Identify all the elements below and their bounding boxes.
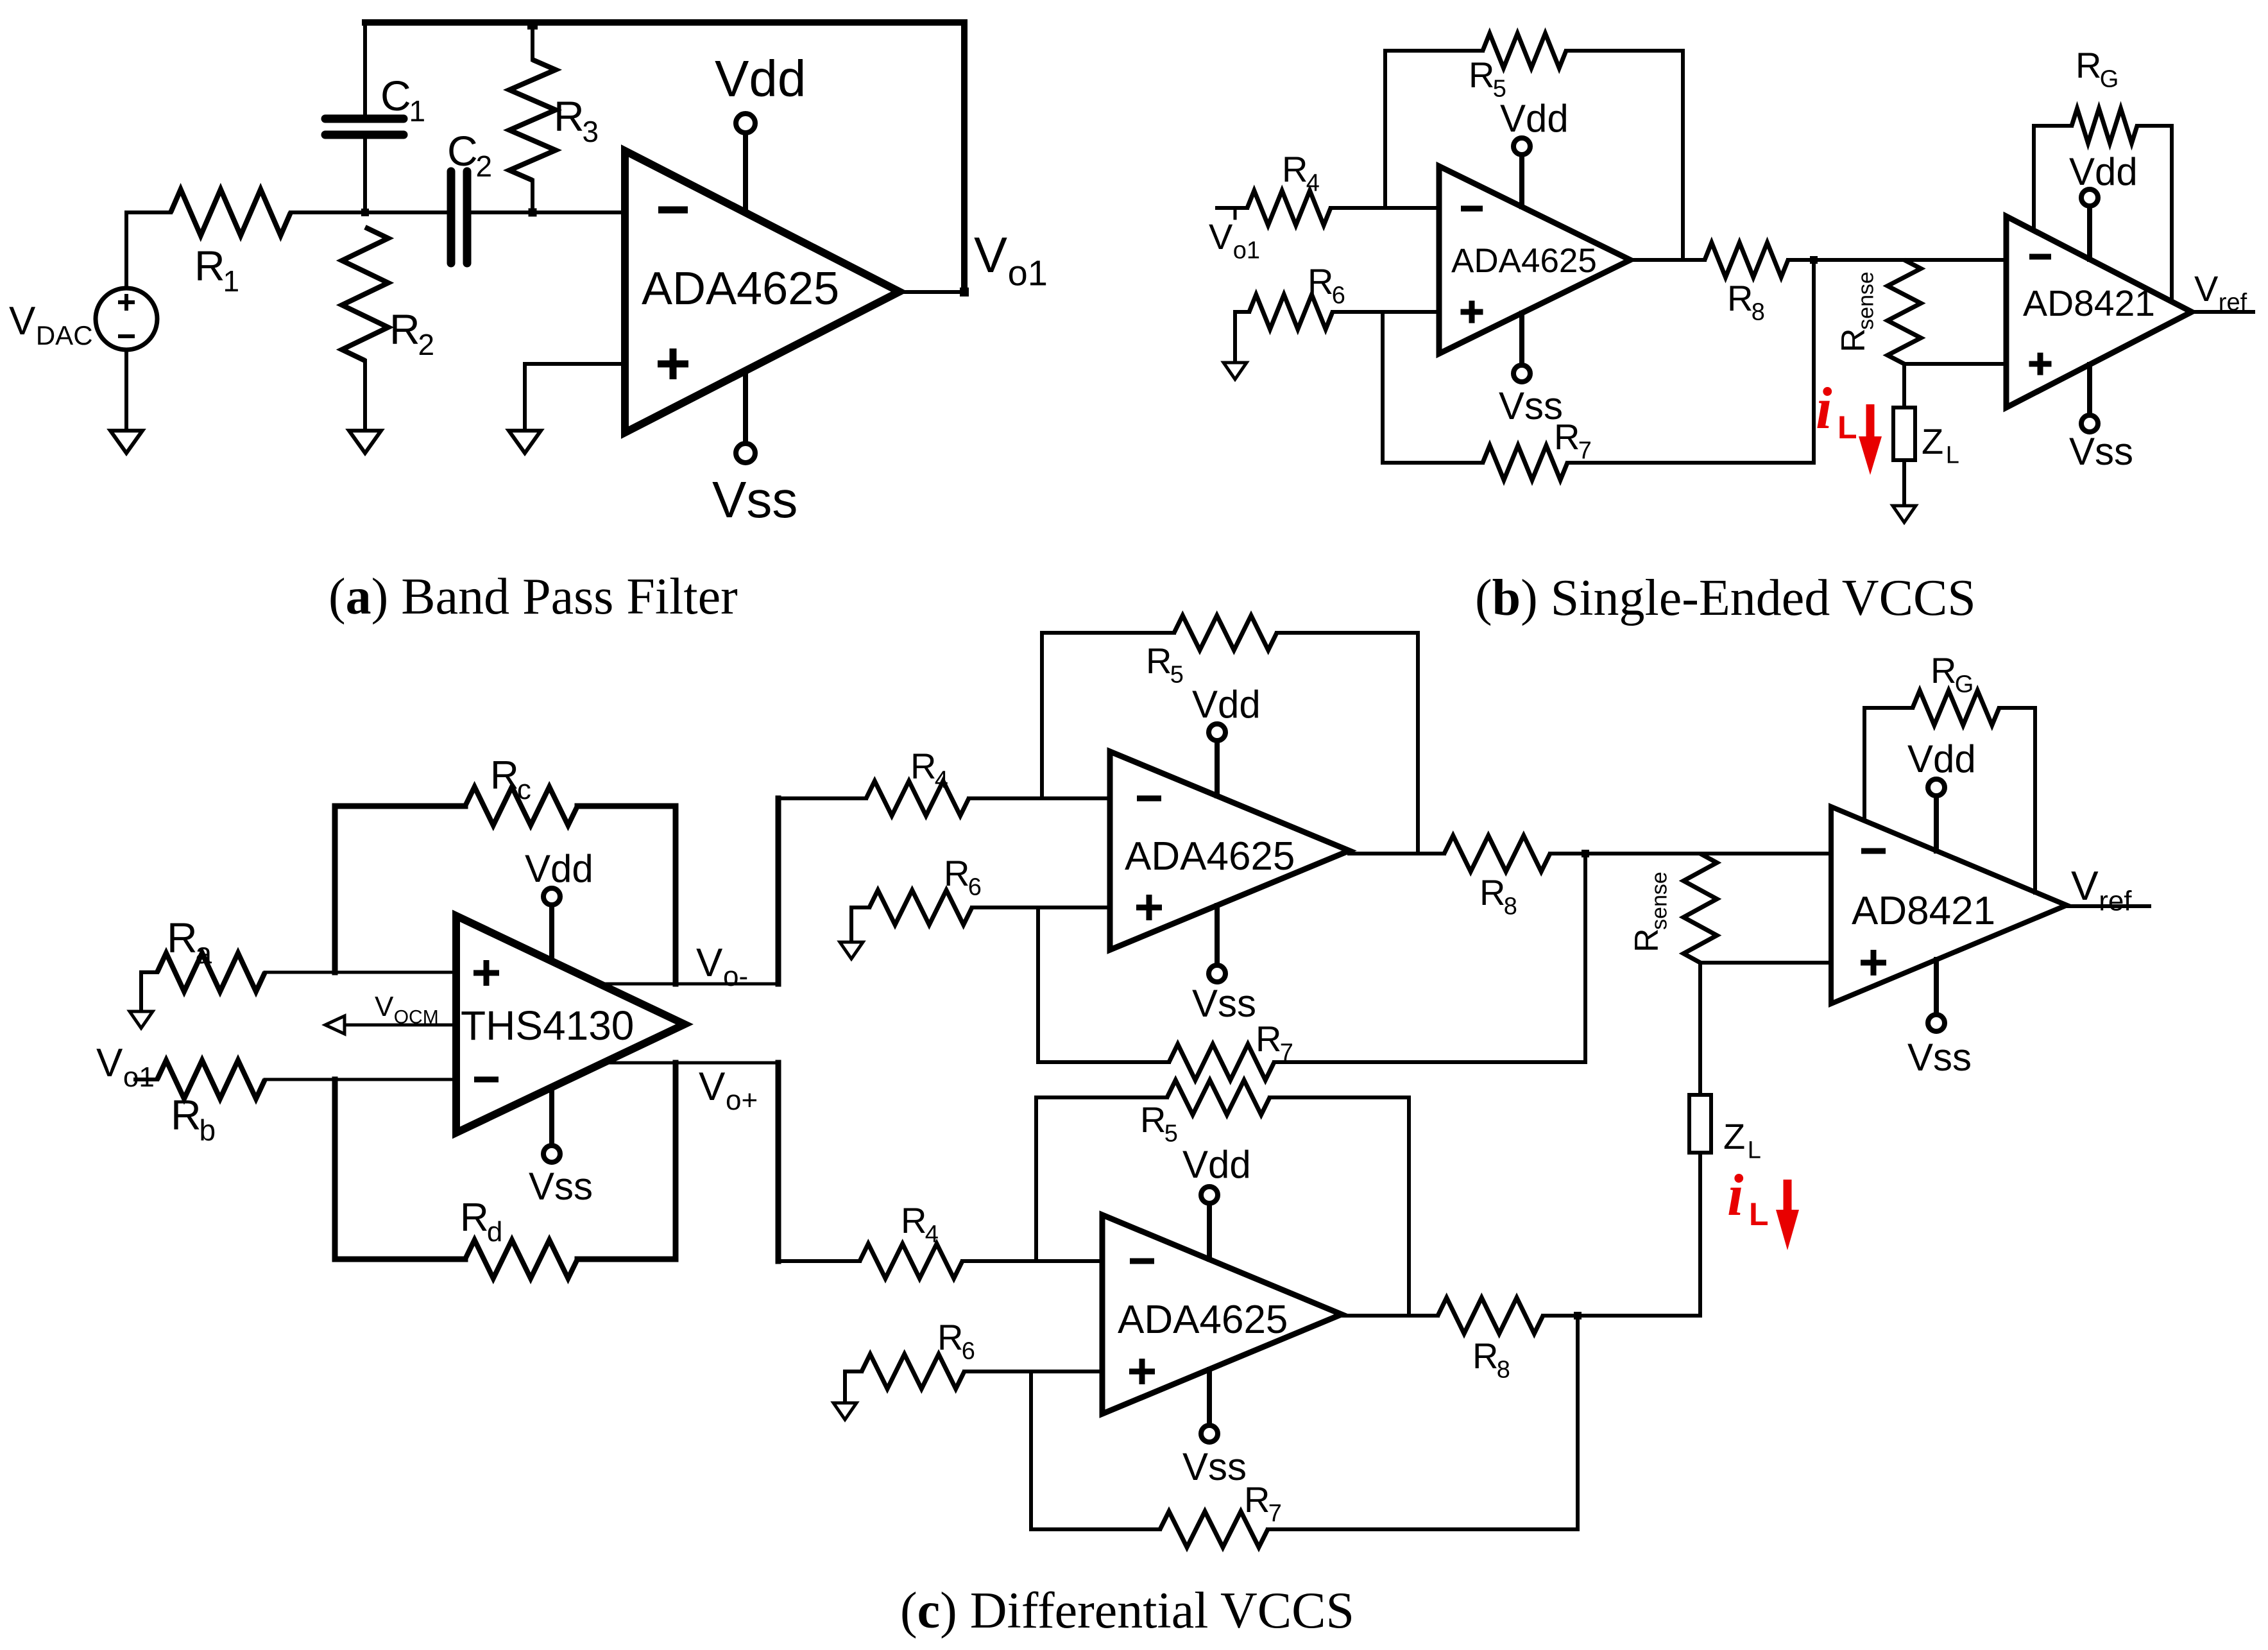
resistor Rc [335,787,676,984]
svg-text:R: R [910,746,936,786]
label R7 upper [1256,1018,1293,1067]
svg-text:o1: o1 [1233,237,1260,264]
resistor R8 lower [1438,1298,1700,1334]
resistor Rb [135,1060,456,1099]
svg-text:R: R [1472,1336,1498,1376]
label U6 AD8421 [1852,889,1995,933]
svg-text:V: V [2071,863,2099,909]
label C1 [380,72,425,128]
ground at R6 lower [833,1403,857,1420]
label Rsense (c) [1628,872,1672,952]
label U5 Vdd [1192,683,1261,726]
svg-text:ADA4625: ADA4625 [1451,242,1597,280]
svg-text:4: 4 [1306,170,1320,197]
svg-text:R: R [1282,149,1308,189]
caption (a) [328,569,738,625]
ground at U1 plus input [509,431,541,453]
svg-text:V: V [1209,216,1233,257]
svg-text:ADA4625: ADA4625 [1125,834,1295,879]
U3 minus input symbol [2029,254,2051,260]
U4 Vss terminal [543,1087,560,1162]
U4 minus input symbol [474,1077,499,1083]
node B junction [529,209,537,217]
svg-text:6: 6 [962,1338,975,1365]
svg-text:Vss: Vss [1192,982,1256,1025]
svg-text:i: i [1816,375,1832,441]
label R5 (b) [1469,55,1506,103]
svg-text:(a) Band Pass Filter: (a) Band Pass Filter [328,569,738,625]
svg-text:Vss: Vss [1907,1036,1972,1079]
label R7 (b) [1554,417,1592,465]
resistor R6 (b) [1235,295,1439,363]
label R4 (b) [1282,149,1320,197]
svg-text:b: b [200,1113,216,1147]
svg-text:L: L [1837,409,1857,445]
label V_o1 (c) [96,1041,155,1093]
op-amp U2 ADA4625 (b) [1439,166,1630,354]
U6 output wire [2067,904,2149,908]
svg-text:7: 7 [1280,1040,1293,1067]
label U3 Vdd [2069,150,2138,193]
resistor RG (b) [2034,108,2172,302]
svg-text:Vss: Vss [1499,384,1563,427]
svg-text:6: 6 [1332,282,1345,309]
svg-text:C: C [380,72,411,119]
svg-text:R: R [554,92,584,140]
label U4 Vss [529,1165,593,1208]
resistor R1 [171,189,291,236]
ground at R6 (b) [1224,363,1247,379]
label C2 [447,127,492,183]
svg-text:R: R [944,853,969,893]
svg-text:8: 8 [1497,1357,1510,1384]
svg-text:R: R [2076,45,2101,85]
wire Vo+ to R4 lower [778,1259,860,1263]
svg-text:Z: Z [1723,1116,1745,1156]
svg-text:THS4130: THS4130 [461,1002,634,1049]
label R1 [194,242,239,298]
svg-text:V: V [699,1065,726,1109]
resistor R3 [509,22,556,212]
label Rd [460,1196,502,1248]
label U2 Vdd [1500,97,1569,140]
wire R1 to node [291,211,447,214]
U6 minus input symbol [1861,848,1886,854]
svg-text:V: V [696,941,723,985]
resistor R7 upper [1038,907,1585,1080]
U3 Vdd terminal [2081,189,2098,259]
label V_o- [696,941,748,992]
svg-text:8: 8 [1752,299,1765,326]
svg-text:Z: Z [1922,421,1943,461]
label Z_L (b) [1922,421,1959,469]
U1 output wire [900,290,964,294]
svg-text:V: V [2194,268,2219,309]
label R4 lower [901,1200,939,1248]
svg-text:ADA4625: ADA4625 [642,263,839,314]
label R8 lower [1472,1336,1510,1384]
label V_ref (c) [2071,863,2132,917]
svg-text:2: 2 [476,150,493,183]
U1 minus input symbol [658,207,688,214]
svg-text:R: R [460,1196,489,1240]
svg-text:1: 1 [409,94,426,128]
resistor Rsense (c) [1684,854,1717,963]
fully-differential amp U4 THS4130 [456,916,685,1133]
U2 output wire [1630,258,1705,262]
svg-text:R: R [389,305,420,353]
label U2 ADA4625 [1451,242,1597,280]
node V_o1 junction [960,288,969,296]
svg-text:AD8421: AD8421 [1852,889,1995,933]
svg-text:Vss: Vss [1182,1445,1247,1488]
svg-text:R: R [1146,640,1172,681]
svg-text:R: R [167,914,198,961]
svg-text:R: R [901,1200,926,1241]
label V_OCM [375,991,439,1027]
resistor R8 upper [1444,836,1831,872]
resistor Ra [141,953,456,1011]
label U4 THS4130 [461,1002,634,1049]
svg-text:L: L [1748,1137,1761,1164]
U5 Vss terminal [1209,906,1225,982]
resistor R5 upper [1042,615,1418,854]
label V_o+ [699,1065,758,1116]
capacitor C1 [325,22,404,212]
svg-text:7: 7 [1578,438,1592,465]
label R7 lower [1244,1479,1282,1527]
ground under Z_L (b) [1893,506,1916,522]
svg-text:V: V [9,299,36,343]
node A junction [361,209,369,216]
node R8 lower junction [1574,1312,1582,1529]
label R2 [389,305,434,361]
U5 Vdd terminal [1209,724,1225,796]
resistor R5 lower [1036,1080,1409,1316]
svg-text:o1: o1 [123,1061,155,1093]
label U5 ADA4625 [1125,834,1295,879]
capacitor C2 [451,171,625,263]
label i_L (b) [1816,375,1857,445]
resistor R7 lower [1031,1371,1578,1547]
svg-text:Vdd: Vdd [715,50,806,107]
label R8 (b) [1727,278,1765,326]
resistor Rsense (b) [1888,260,1921,364]
wire R4 to minus (b) [1331,206,1439,210]
load Z_L (c) [1578,963,1711,1316]
in-amp U3 AD8421 (b) [2006,216,2192,408]
U7 minus input symbol [1130,1259,1154,1264]
svg-text:Vss: Vss [529,1165,593,1208]
svg-text:L: L [1749,1196,1769,1232]
label U6 Vss [1907,1036,1972,1079]
svg-text:R: R [1727,278,1753,318]
U4 Vdd terminal [543,888,560,961]
label R5 lower [1140,1099,1178,1147]
caption (b) [1475,570,1976,626]
svg-text:AD8421: AD8421 [2023,283,2155,324]
svg-text:Vss: Vss [2069,430,2133,473]
ground at Ra [130,1011,153,1028]
node R8 upper junction [1582,850,1589,1062]
label U3 AD8421 [2023,283,2155,324]
label U1 ADA4625 [642,263,839,314]
svg-text:R: R [937,1317,963,1357]
label U3 Vss [2069,430,2133,473]
U4 plus input symbol [473,960,499,986]
U1 Vdd terminal [736,114,755,213]
U1 Vss terminal [736,371,755,463]
label RG (c) [1931,650,1974,698]
svg-text:5: 5 [1170,662,1184,689]
label i_L (c) [1727,1162,1769,1232]
svg-text:R: R [171,1091,201,1139]
label R6 lower [937,1317,975,1365]
label U2 Vss [1499,384,1563,427]
U3 output wire [2192,310,2253,314]
svg-text:(c) Differential VCCS: (c) Differential VCCS [900,1583,1354,1639]
svg-text:DAC: DAC [36,320,93,350]
resistor R2 [342,227,388,431]
svg-text:R: R [1256,1018,1281,1059]
svg-text:ref: ref [2219,289,2247,316]
svg-text:o+: o+ [726,1085,758,1116]
U2 minus input symbol [1461,206,1483,212]
label U4 Vdd [525,847,593,890]
op-amp U7 ADA4625 lower [1102,1215,1342,1414]
svg-text:OCM: OCM [394,1006,439,1027]
feedback wire V_o1 [961,22,968,292]
V_OCM arrow [325,1016,456,1034]
wire V_DAC to R1 [126,212,171,288]
label R3 [554,92,599,148]
svg-text:o-: o- [723,961,748,992]
svg-text:R: R [1628,928,1666,952]
label Rsense (b) [1835,271,1879,352]
U7 plus input symbol [1129,1359,1155,1384]
ground under R2 [349,431,381,453]
resistor R6 lower [845,1354,1102,1403]
U2 Vss terminal [1513,313,1530,382]
U5 plus input symbol [1136,895,1162,920]
U6 Vdd terminal [1928,779,1945,851]
resistor R4 lower [860,1244,1102,1278]
U7 Vdd terminal [1201,1187,1218,1259]
node R8/R7 junction (b) [1810,256,1818,463]
svg-text:R: R [1244,1479,1270,1520]
resistor R7 (b) [1383,312,1814,480]
load Z_L (b) [1893,364,1915,506]
label V_o1 input (b) [1209,216,1260,264]
svg-text:c: c [517,774,531,805]
svg-text:4: 4 [935,767,948,794]
svg-text:R: R [1469,55,1494,95]
svg-text:R: R [1479,872,1505,913]
voltage source V_DAC [96,288,157,350]
wire V_o- output [599,798,778,984]
U2 Vdd terminal [1513,138,1530,207]
op-amp U1 ADA4625 [625,151,900,433]
top feedback wire [365,19,964,26]
label U7 Vdd [1182,1143,1251,1186]
resistor R6 upper [851,890,1110,942]
svg-text:Vdd: Vdd [1192,683,1261,726]
svg-text:G: G [2100,66,2119,93]
op-amp U5 ADA4625 upper [1110,752,1349,950]
U3 plus input symbol [2029,353,2052,375]
svg-text:Vss: Vss [712,471,797,528]
U1 plus input symbol [658,348,688,379]
resistor R4 upper [866,781,1110,816]
label V_ref (b) [2194,268,2247,316]
label R5 upper [1146,640,1184,689]
wire Rsense to plus (b) [1904,362,2006,366]
label V_o1 output [974,227,1048,293]
svg-text:1: 1 [223,264,240,298]
label U7 ADA4625 [1118,1298,1288,1342]
U7 output wire [1342,1314,1438,1318]
svg-text:Vdd: Vdd [1907,737,1976,780]
current arrow i_L (b) [1859,404,1882,475]
resistor R4 (b) [1247,191,1331,225]
svg-text:R: R [1140,1099,1166,1140]
svg-text:o1: o1 [1008,252,1048,293]
label Z_L (c) [1723,1116,1761,1164]
svg-text:8: 8 [1504,893,1517,920]
svg-text:Vdd: Vdd [1182,1143,1251,1186]
wire V_o+ output [604,1063,778,1261]
ground under V_DAC [110,350,142,453]
svg-text:C: C [447,127,478,175]
label U5 Vss [1192,982,1256,1025]
node R3 top junction [527,19,538,30]
svg-text:i: i [1727,1162,1744,1228]
svg-text:G: G [1955,671,1974,698]
resistor R8 (b) [1705,243,2006,277]
svg-text:L: L [1946,442,1959,469]
U7 Vss terminal [1201,1370,1218,1442]
wire minus input (c) [1829,851,1833,854]
svg-text:7: 7 [1268,1500,1282,1527]
svg-text:Vdd: Vdd [2069,150,2138,193]
svg-text:sense: sense [1648,872,1672,930]
svg-text:a: a [196,936,212,970]
svg-text:ADA4625: ADA4625 [1118,1298,1288,1342]
label U1 Vdd [715,50,806,107]
svg-text:R: R [1835,328,1872,352]
svg-text:sense: sense [1854,271,1879,330]
label R6 upper [944,853,982,901]
svg-text:V: V [974,227,1007,283]
label U6 Vdd [1907,737,1976,780]
svg-text:d: d [487,1216,502,1248]
U5 output wire [1349,852,1444,855]
wire plus input to ground [525,364,625,431]
svg-text:V: V [375,991,394,1022]
label R8 upper [1479,872,1517,920]
svg-text:V: V [96,1041,123,1085]
svg-text:3: 3 [583,115,599,148]
resistor Rd [335,1063,676,1278]
svg-text:Vdd: Vdd [1500,97,1569,140]
ground at R6 upper [840,942,863,959]
resistor R5 (b) [1385,33,1683,260]
resistor RG (c) [1864,691,2035,893]
label R4 upper [910,746,948,794]
U6 Vss terminal [1928,959,1945,1031]
label R6 (b) [1308,261,1345,309]
label Rb [171,1091,216,1147]
U6 plus input symbol [1861,950,1886,975]
svg-text:R: R [1308,261,1333,302]
label Rc [490,753,531,805]
label Ra [167,914,212,970]
wire Rsense to plus (c) [1700,961,1831,965]
label U1 Vss [712,471,797,528]
svg-text:4: 4 [925,1221,939,1248]
U5 minus input symbol [1137,796,1161,802]
wire V_o1 to R4 (b) [1217,208,1247,218]
caption (c) [900,1583,1354,1639]
svg-text:(b) Single-Ended VCCS: (b) Single-Ended VCCS [1475,570,1976,626]
U3 Vss terminal [2081,365,2098,432]
svg-text:5: 5 [1164,1121,1178,1147]
in-amp U6 AD8421 (c) [1831,807,2067,1004]
svg-text:6: 6 [968,874,982,901]
svg-text:Vdd: Vdd [525,847,593,890]
svg-text:ref: ref [2099,886,2132,917]
svg-text:R: R [194,242,225,289]
current arrow i_L (c) [1776,1180,1799,1250]
svg-text:2: 2 [418,328,435,361]
svg-text:R: R [490,753,519,798]
svg-text:R: R [1931,650,1956,691]
wire Vo- to R4 upper [778,796,866,800]
label V_DAC [9,299,93,350]
U2 plus input symbol [1461,301,1483,323]
label U7 Vss [1182,1445,1247,1488]
label RG (b) [2076,45,2119,93]
